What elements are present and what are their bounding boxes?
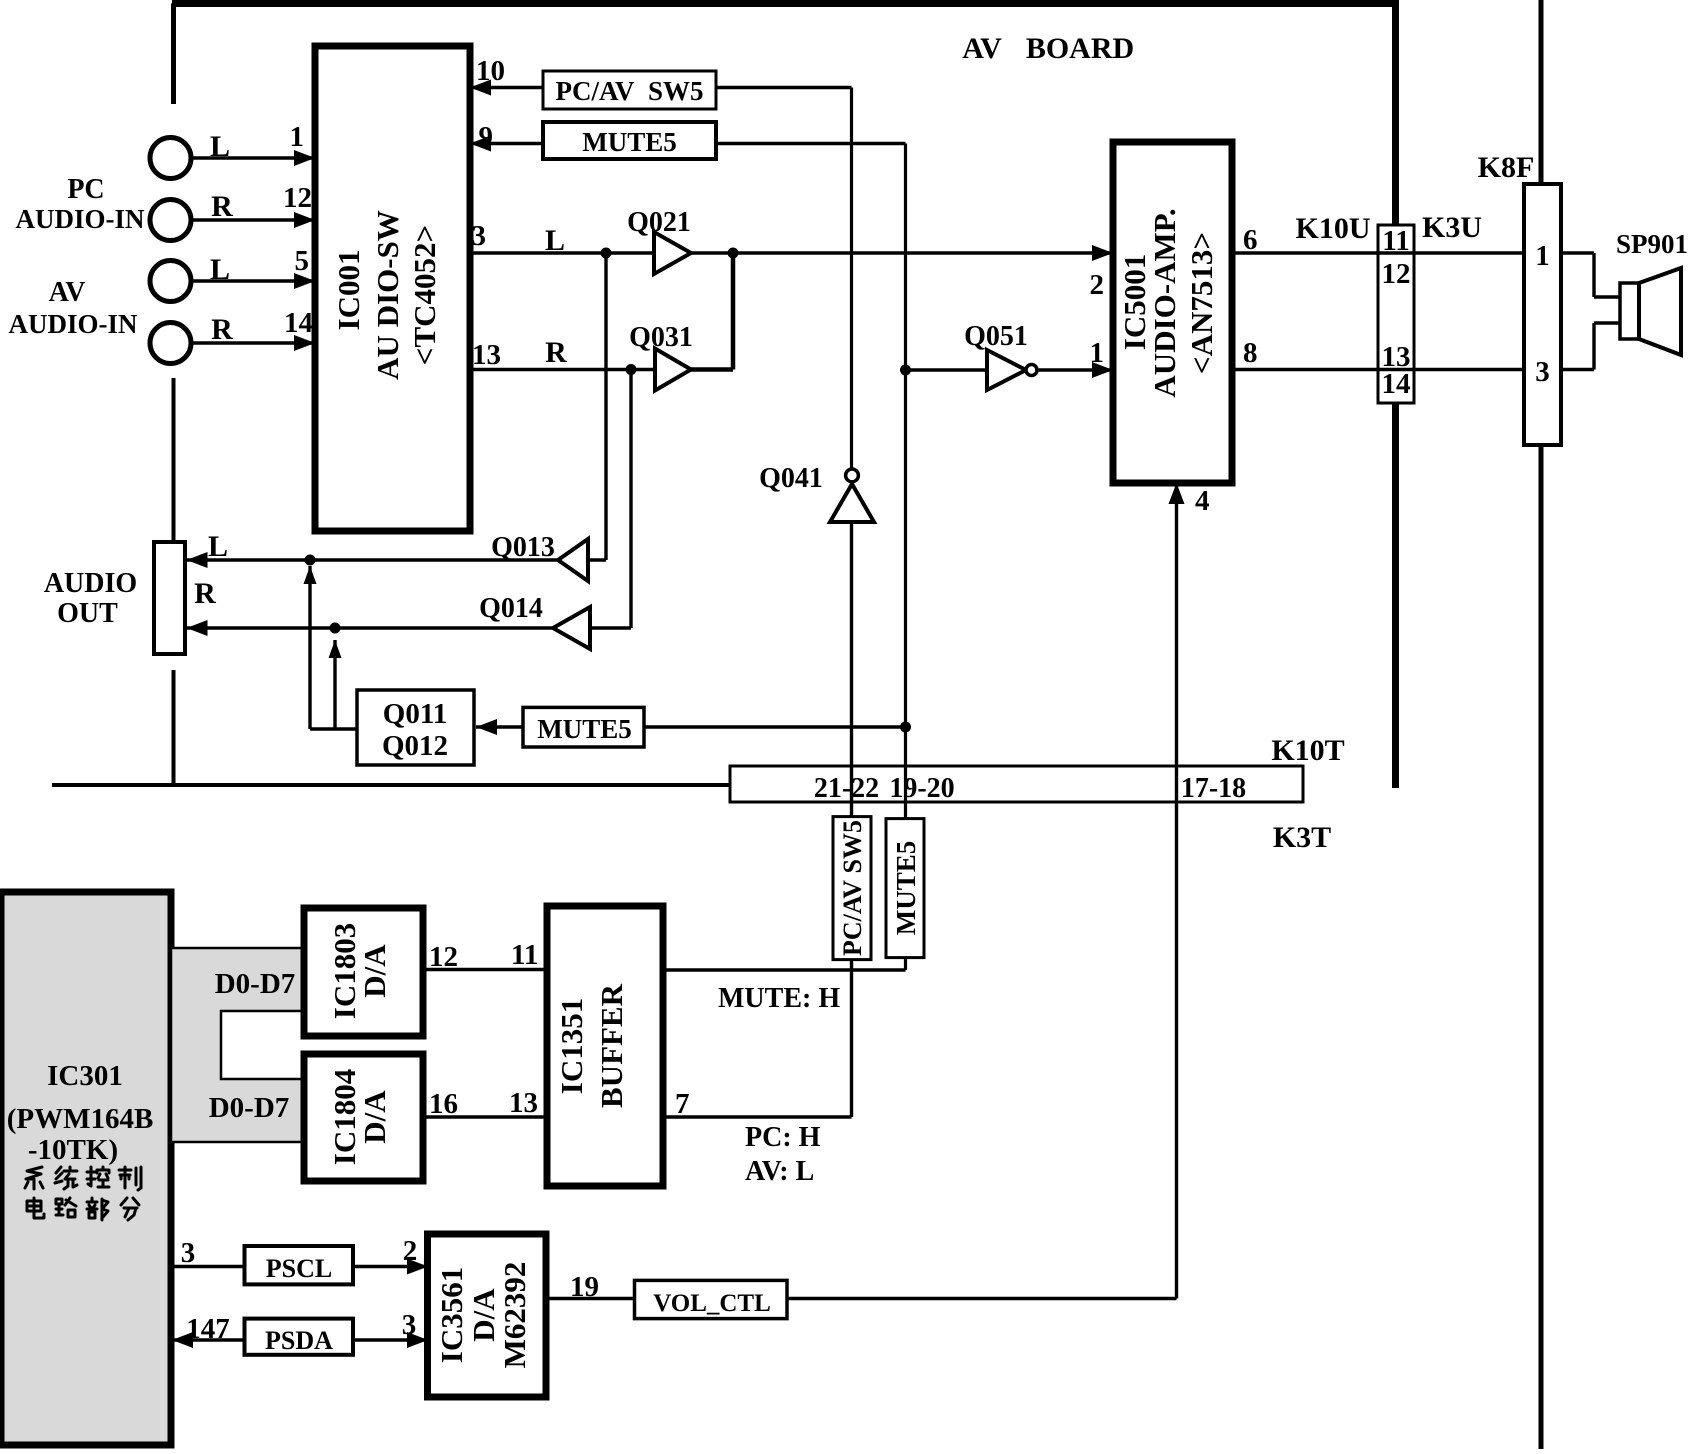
svg-text:AUDIO-IN: AUDIO-IN bbox=[15, 204, 145, 234]
svg-text:9: 9 bbox=[479, 121, 494, 153]
svg-text:M62392: M62392 bbox=[497, 1262, 532, 1369]
svg-text:IC1351: IC1351 bbox=[554, 998, 589, 1094]
svg-text:7: 7 bbox=[675, 1088, 690, 1120]
svg-text:PC/AV SW5: PC/AV SW5 bbox=[555, 76, 703, 106]
svg-text:2: 2 bbox=[403, 1235, 418, 1267]
svg-text:-10TK): -10TK) bbox=[28, 1134, 118, 1166]
svg-text:21-22: 21-22 bbox=[814, 773, 879, 804]
svg-text:6: 6 bbox=[1243, 224, 1258, 256]
svg-text:PC/AV SW5: PC/AV SW5 bbox=[838, 820, 867, 956]
svg-text:3: 3 bbox=[181, 1237, 196, 1269]
svg-text:14: 14 bbox=[1382, 368, 1411, 400]
svg-text:SP901: SP901 bbox=[1616, 229, 1688, 259]
svg-text:MUTE5: MUTE5 bbox=[891, 841, 921, 936]
svg-text:K10T: K10T bbox=[1271, 734, 1344, 767]
svg-text:PSDA: PSDA bbox=[265, 1326, 333, 1355]
svg-text:Q041: Q041 bbox=[759, 463, 823, 494]
svg-text:D/A: D/A bbox=[466, 1288, 501, 1342]
svg-text:IC3561: IC3561 bbox=[434, 1267, 469, 1363]
svg-text:PSCL: PSCL bbox=[266, 1254, 332, 1283]
svg-text:VOL_CTL: VOL_CTL bbox=[653, 1290, 771, 1317]
svg-text:K10U: K10U bbox=[1296, 212, 1371, 245]
svg-text:1: 1 bbox=[290, 121, 305, 153]
svg-text:19: 19 bbox=[570, 1271, 599, 1303]
svg-text:3: 3 bbox=[1535, 356, 1550, 388]
svg-text:14: 14 bbox=[284, 307, 313, 339]
svg-text:AU DIO-SW: AU DIO-SW bbox=[370, 210, 405, 380]
svg-text:Q012: Q012 bbox=[382, 730, 448, 762]
svg-text:D0-D7: D0-D7 bbox=[209, 1092, 290, 1124]
svg-text:<AN7513>: <AN7513> bbox=[1184, 232, 1219, 374]
svg-text:D/A: D/A bbox=[357, 944, 392, 998]
svg-text:13: 13 bbox=[509, 1087, 538, 1119]
svg-text:L: L bbox=[210, 130, 230, 163]
svg-text:12: 12 bbox=[1382, 258, 1411, 290]
svg-text:AV: AV bbox=[962, 32, 1002, 65]
svg-text:4: 4 bbox=[1195, 485, 1210, 517]
svg-text:D0-D7: D0-D7 bbox=[215, 968, 296, 1000]
svg-text:R: R bbox=[194, 577, 216, 610]
svg-text:(PWM164B: (PWM164B bbox=[7, 1103, 154, 1135]
svg-text:MUTE5: MUTE5 bbox=[582, 127, 677, 157]
svg-text:D/A: D/A bbox=[357, 1090, 392, 1144]
svg-text:AV: L: AV: L bbox=[745, 1156, 814, 1187]
svg-text:12: 12 bbox=[429, 941, 458, 973]
svg-text:Q021: Q021 bbox=[627, 207, 691, 238]
svg-text:L: L bbox=[210, 253, 230, 286]
svg-text:11: 11 bbox=[1382, 225, 1409, 257]
svg-text:Q051: Q051 bbox=[964, 321, 1028, 352]
svg-text:10: 10 bbox=[476, 55, 505, 87]
svg-text:BOARD: BOARD bbox=[1026, 32, 1134, 65]
svg-text:13: 13 bbox=[472, 339, 501, 371]
svg-text:147: 147 bbox=[186, 1313, 230, 1345]
svg-text:K3U: K3U bbox=[1422, 211, 1482, 244]
svg-text:<TC4052>: <TC4052> bbox=[407, 225, 442, 365]
svg-text:16: 16 bbox=[429, 1088, 458, 1120]
svg-text:12: 12 bbox=[283, 182, 312, 214]
svg-text:8: 8 bbox=[1243, 337, 1258, 369]
svg-text:K3T: K3T bbox=[1273, 821, 1331, 854]
svg-text:AV: AV bbox=[49, 277, 86, 308]
svg-text:19-20: 19-20 bbox=[889, 773, 954, 804]
svg-text:AUDIO-IN: AUDIO-IN bbox=[8, 309, 138, 339]
svg-text:Q014: Q014 bbox=[479, 593, 543, 624]
svg-text:OUT: OUT bbox=[57, 598, 118, 629]
svg-text:R: R bbox=[211, 190, 233, 223]
svg-text:AUDIO-AMP.: AUDIO-AMP. bbox=[1147, 208, 1182, 397]
svg-text:IC301: IC301 bbox=[47, 1060, 123, 1092]
svg-text:L: L bbox=[208, 530, 228, 563]
svg-text:PC: PC bbox=[67, 174, 104, 205]
svg-text:1: 1 bbox=[1090, 337, 1105, 369]
svg-text:PC: H: PC: H bbox=[745, 1122, 821, 1153]
svg-text:BUFFER: BUFFER bbox=[594, 983, 629, 1108]
svg-text:1: 1 bbox=[1535, 240, 1550, 272]
svg-text:MUTE5: MUTE5 bbox=[537, 714, 632, 744]
svg-text:2: 2 bbox=[1090, 269, 1105, 301]
svg-text:IC001: IC001 bbox=[331, 250, 366, 331]
svg-text:11: 11 bbox=[511, 939, 538, 971]
svg-text:Q013: Q013 bbox=[491, 532, 555, 563]
svg-text:R: R bbox=[211, 313, 233, 346]
svg-text:5: 5 bbox=[295, 245, 310, 277]
svg-text:Q031: Q031 bbox=[629, 322, 693, 353]
svg-text:17-18: 17-18 bbox=[1181, 773, 1246, 804]
svg-text:Q011: Q011 bbox=[383, 698, 447, 730]
svg-text:MUTE: H: MUTE: H bbox=[718, 983, 840, 1014]
svg-text:3: 3 bbox=[402, 1309, 417, 1341]
svg-text:K8F: K8F bbox=[1478, 151, 1535, 184]
svg-text:L: L bbox=[545, 224, 565, 257]
svg-text:R: R bbox=[545, 336, 567, 369]
svg-text:AUDIO: AUDIO bbox=[44, 568, 137, 599]
svg-text:3: 3 bbox=[472, 220, 487, 252]
